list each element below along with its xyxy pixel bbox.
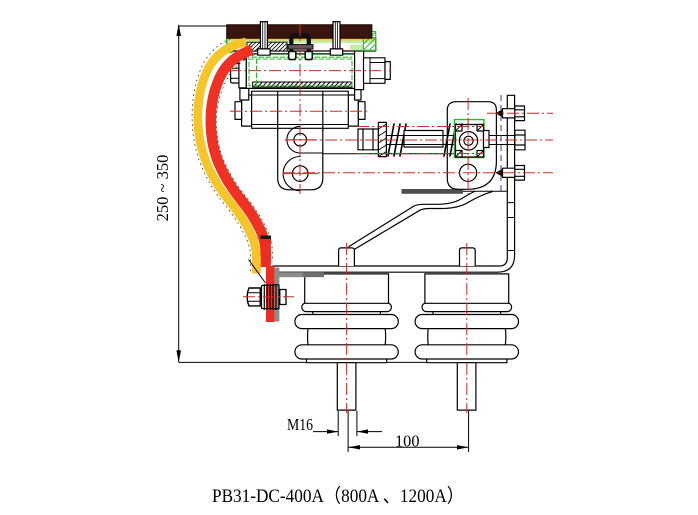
swing arm strip bbox=[349, 192, 493, 250]
dimension top extension line bbox=[179, 25, 228, 27]
bolt B1 body and nut bbox=[503, 106, 525, 121]
rod lock nut behind spindle bbox=[484, 131, 490, 148]
right insulator neck bbox=[433, 311, 501, 315]
yellow cable bbox=[198, 42, 257, 273]
left insulator top stud bbox=[339, 248, 355, 266]
U-bolt saddle plate bbox=[288, 45, 313, 50]
spring rod end nut B2 bbox=[515, 130, 525, 150]
spring coils left bbox=[388, 124, 406, 156]
right insulator bottom stud M16 bbox=[457, 363, 476, 410]
left insulator top cap bbox=[305, 274, 389, 303]
svg-text:PB31-DC-400A（800A 、1200A）: PB31-DC-400A（800A 、1200A） bbox=[212, 485, 464, 507]
100 arrows bbox=[348, 445, 360, 449]
right insulator foot bbox=[427, 358, 507, 363]
housing bottom line bbox=[300, 153, 453, 155]
terminal nut right bbox=[280, 290, 286, 305]
CENTERLINES-LAYER bbox=[229, 24, 553, 413]
MAIN-GEOMETRY-LAYER bbox=[273, 95, 525, 410]
hinge plate bottom hole lobe bbox=[283, 157, 300, 191]
left stud through strip bbox=[260, 22, 267, 49]
pivot cylinder body bbox=[252, 91, 349, 128]
centerline spring envelope top bbox=[357, 126, 484, 128]
hole centerline crosses bbox=[283, 140, 318, 174]
bolt B3 body and nut bbox=[503, 166, 525, 181]
left insulator waist bbox=[308, 328, 386, 346]
support plate yellow stripe bbox=[227, 38, 375, 40]
support plate right step bbox=[350, 45, 376, 51]
centre U-bolt clamp bbox=[291, 35, 309, 41]
centerline cylinder horizontal bbox=[230, 110, 367, 112]
centerline main vertical x300 bbox=[299, 24, 301, 194]
right insulator top cap bbox=[425, 274, 509, 303]
terminal bolt centerline bbox=[243, 296, 294, 298]
DIMENSIONS-LAYER bbox=[179, 25, 507, 362]
right shaft end bbox=[385, 62, 390, 80]
centerline left insulator vertical bbox=[346, 243, 348, 413]
red cable lower segment to terminal bbox=[260, 239, 270, 267]
right insulator bulge 2 bbox=[415, 345, 518, 359]
spindle bearing block bbox=[456, 125, 484, 158]
right insulator waist bbox=[428, 328, 506, 346]
cylinder inner lines bbox=[252, 94, 349, 96]
spring seat washer hatched bbox=[378, 122, 386, 156]
centerline right insulator vertical bbox=[466, 243, 468, 413]
bolt B3 bottom cone tip bbox=[496, 169, 503, 177]
spindle block green highlight bbox=[455, 120, 485, 158]
hinge link plate bbox=[278, 91, 323, 190]
spindle pin circle bbox=[459, 132, 477, 150]
green plate outline bbox=[227, 38, 376, 53]
carbon contact strip bbox=[227, 25, 372, 39]
cable terminal red strip bbox=[266, 266, 275, 322]
baseline / bottom extension line bbox=[179, 361, 507, 363]
side plate bottom edge line bbox=[452, 190, 507, 192]
hinge plate bottom hole bbox=[292, 166, 308, 182]
centerline spring envelope bottom bbox=[357, 153, 484, 155]
rubber pad bar bbox=[402, 189, 464, 194]
upper body left flange bbox=[239, 59, 246, 88]
left insulator bottom stud M16 bbox=[337, 363, 356, 410]
cable dotted outline right bbox=[216, 56, 272, 263]
U-bolt legs bbox=[291, 41, 309, 57]
centerline top bolt right plate bbox=[487, 112, 553, 114]
U-bolt leg nuts bbox=[289, 52, 296, 60]
pivot bracket plate bbox=[447, 102, 496, 190]
hinge plate side edges over cylinder bbox=[277, 91, 279, 130]
hinge plate top hole bbox=[294, 133, 307, 146]
left insulator bulge 1 bbox=[295, 315, 398, 329]
right insulator lip bbox=[422, 303, 512, 312]
cable dotted outline left bbox=[192, 36, 251, 273]
centerline upper body horizontal bbox=[229, 70, 391, 72]
spring rod through tube bbox=[386, 135, 515, 137]
spring guide tube bbox=[404, 131, 443, 148]
dimension arrow top bbox=[176, 24, 181, 36]
right plate seam lines bbox=[507, 203, 514, 251]
centerline pivot bracket vertical bbox=[467, 98, 469, 194]
support plate light green stripe bbox=[227, 41, 375, 44]
left insulator foot bbox=[307, 358, 387, 363]
gray angle bracket horizontal bbox=[277, 272, 324, 277]
hinge plate top hole lobe bbox=[287, 126, 323, 153]
centerline pivot axis horizontal bbox=[283, 172, 553, 174]
svg-text:100: 100 bbox=[395, 432, 420, 451]
left side link bar bbox=[240, 88, 249, 100]
left insulator bulge 2 bbox=[295, 345, 398, 359]
left insulator lip bbox=[302, 303, 392, 312]
yellow cable end segment bbox=[252, 255, 261, 273]
red cable bbox=[211, 50, 266, 263]
green hidden lines of clamp bore bbox=[249, 55, 352, 86]
pivot cylinder right knob bbox=[358, 102, 365, 120]
right insulator bulge 1 bbox=[415, 315, 518, 329]
M16 arrows bbox=[327, 429, 338, 433]
upper body bottom hatch strip bbox=[253, 82, 352, 87]
green hatch block right end bbox=[363, 32, 375, 51]
pivot cylinder left knob bbox=[235, 102, 242, 120]
terminal washer stack bbox=[262, 284, 280, 310]
terminal edge diagonal bbox=[249, 260, 266, 284]
right side link bar bbox=[355, 88, 361, 100]
dimension arrow bottom bbox=[176, 350, 181, 362]
svg-text:250 ~ 350: 250 ~ 350 bbox=[153, 155, 172, 222]
pivot bracket hole bbox=[460, 164, 477, 181]
100 dimension extension lines bbox=[348, 411, 469, 452]
pivot cylinder outer shell bbox=[242, 95, 359, 126]
blue phase line vertical dashed bbox=[500, 95, 502, 192]
gray angle bracket vertical bbox=[275, 268, 280, 322]
right hex nut bbox=[364, 58, 386, 84]
spring coils right bbox=[444, 124, 468, 156]
right stud through strip bbox=[333, 22, 340, 49]
left insulator neck bbox=[313, 311, 381, 315]
support plate right end green fill bbox=[350, 45, 363, 51]
support plate under carbon strip bbox=[227, 38, 376, 51]
right stud nut bbox=[330, 49, 342, 55]
spring rod anchor nut bbox=[358, 129, 378, 150]
upper body left hex head bbox=[231, 64, 239, 83]
dimension 250~350 vertical line bbox=[178, 25, 180, 362]
terminal bolt hex head bbox=[247, 288, 260, 306]
cable end ferrule black band bbox=[261, 236, 272, 244]
upper body right end plate bbox=[355, 50, 364, 90]
bolt B1 top cone tip bbox=[496, 109, 503, 117]
svg-text:M16: M16 bbox=[287, 415, 313, 434]
clamp saddle hatched bbox=[247, 42, 287, 51]
M16 dimension extension lines bbox=[313, 411, 382, 436]
top mounting plate on insulators with right angle bracket bbox=[273, 95, 515, 272]
upper clamp body bbox=[246, 54, 354, 89]
left stud nut bbox=[258, 49, 270, 55]
right insulator top stud bbox=[460, 248, 476, 266]
centerline spring rod horizontal bbox=[285, 139, 553, 141]
